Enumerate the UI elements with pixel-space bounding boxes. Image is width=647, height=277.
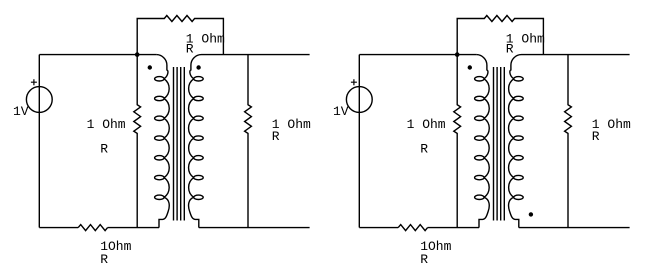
svg-text:1 Ohm: 1 Ohm: [407, 117, 446, 132]
resistor R feedback 1 Ohm (top), circuit A: [137, 16, 223, 55]
wire: top rail left section, circuit A: [39, 54, 156, 56]
svg-text:1V: 1V: [333, 104, 349, 119]
junction node: top rail / primary branch, circuit A: [135, 52, 140, 57]
voltage source VB 1V: [346, 87, 372, 113]
resistor R primary shunt 1 Ohm (vertical), circuit A: [134, 55, 141, 228]
wire: bottom rail right section, circuit B: [519, 227, 630, 229]
polarity dot: secondary of TB (bottom): [529, 212, 533, 216]
transformer TB primary winding: [475, 55, 490, 228]
transformer TA core: [174, 67, 185, 221]
svg-text:1 Ohm: 1 Ohm: [87, 117, 126, 132]
voltage source VA 1V: [26, 87, 52, 113]
svg-text:R: R: [100, 252, 108, 267]
transformer TA secondary winding: [189, 55, 204, 228]
transformer TB core: [494, 67, 505, 221]
plus polarity mark of VB: [351, 79, 357, 85]
wire: left vertical branch with source, circuit B: [358, 55, 360, 228]
resistor R load 1 Ohm (vertical), circuit A: [245, 55, 252, 228]
svg-text:1V: 1V: [13, 104, 29, 119]
svg-text:R: R: [420, 252, 428, 267]
plus polarity mark of VA: [31, 79, 37, 85]
transformer TA primary winding: [155, 55, 170, 228]
svg-text:R: R: [100, 142, 108, 157]
svg-text:R: R: [420, 142, 428, 157]
polarity dot: secondary of TA (top): [196, 65, 200, 69]
wire: top rail left section, circuit B: [359, 54, 476, 56]
polarity dot: primary of TB: [468, 65, 472, 69]
resistor R series 1Ohm (bottom), circuit B: [398, 225, 427, 231]
junction node: top rail / primary branch, circuit B: [455, 52, 460, 57]
resistor R load 1 Ohm (vertical), circuit B: [565, 55, 572, 228]
transformer TB secondary winding: [509, 55, 524, 228]
wire: bottom rail right section, circuit A: [199, 227, 310, 229]
wire: top rail right section, circuit B: [522, 54, 630, 56]
wire: bottom rail left lead, circuit B: [359, 227, 398, 229]
resistor R feedback 1 Ohm (top), circuit B: [457, 16, 543, 55]
wire: bottom rail to transformer primary, circuit A: [108, 227, 159, 229]
svg-text:R: R: [186, 42, 194, 57]
svg-text:R: R: [272, 129, 280, 144]
resistor R series 1Ohm (bottom), circuit A: [78, 225, 107, 231]
wire: bottom rail to transformer primary, circuit B: [428, 227, 479, 229]
wire: bottom rail left lead, circuit A: [39, 227, 78, 229]
polarity dot: primary of TA: [148, 65, 152, 69]
svg-text:R: R: [506, 42, 514, 57]
wire: top rail right section, circuit A: [202, 54, 310, 56]
svg-text:R: R: [592, 129, 600, 144]
resistor R primary shunt 1 Ohm (vertical), circuit B: [454, 55, 461, 228]
wire: left vertical branch with source, circuit A: [38, 55, 40, 228]
